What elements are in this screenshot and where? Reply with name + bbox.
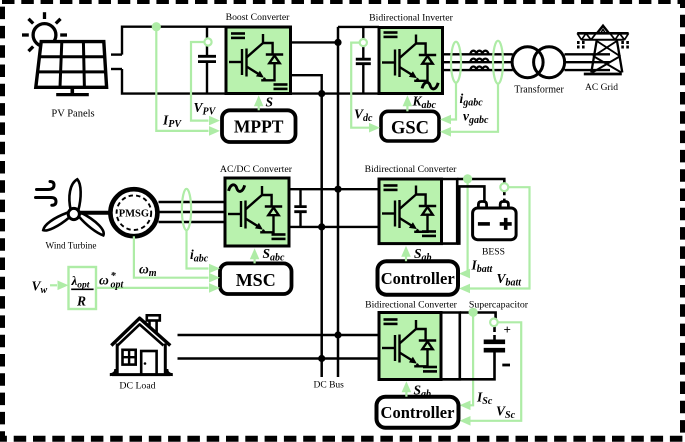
green arrow S_ab (battery): [405, 250, 407, 261]
SC converter DC mark bottom-right: [423, 367, 437, 371]
green sensor circle V_Sc: [490, 319, 498, 327]
AC/DC IGBT U3: [228, 186, 282, 232]
node dot I_PV tap: [152, 22, 161, 31]
green arrow S_ab (SC): [405, 386, 407, 397]
capacitor C2 (dc link): [356, 27, 371, 94]
svg-text:MPPT: MPPT: [234, 117, 284, 137]
capacitor C3: [294, 189, 306, 227]
green line V_batt: [467, 187, 530, 288]
wire: AC/DC top output: [289, 188, 379, 190]
wire: dc link bottom y93.6: [291, 92, 380, 94]
turbine shaft: [79, 211, 111, 215]
wind turbine rotor: [43, 179, 103, 235]
green line i_abc: [187, 230, 209, 268]
AC/DC AC mark top-left: [229, 185, 245, 192]
battery converter side rect: [442, 179, 458, 244]
green arrow S_abc: [254, 253, 256, 264]
bidirectional inverter box: [379, 28, 443, 94]
sensor ellipse i_gabc: [451, 42, 461, 83]
svg-text:Controller: Controller: [381, 403, 455, 422]
house DC load icon: [110, 315, 173, 374]
green line I_Sc: [467, 312, 474, 405]
wire: PV stub bottom: [111, 68, 122, 70]
svg-text:MSC: MSC: [236, 270, 276, 290]
battery converter DC mark bottom-right: [422, 232, 436, 236]
svg-text:DC Load: DC Load: [119, 381, 155, 392]
sensor circle V_dc: [360, 39, 367, 46]
green line v_gabc: [449, 84, 498, 132]
svg-text:Supercapacitor: Supercapacitor: [469, 300, 529, 311]
svg-text:Bidirectional Inverter: Bidirectional Inverter: [369, 13, 453, 24]
wind swoosh: [36, 182, 57, 206]
svg-text:S: S: [266, 95, 274, 110]
inverter AC mark bottom-right: [422, 82, 438, 89]
SC converter IGBT U5: [382, 320, 436, 366]
SC minus label: [502, 364, 510, 367]
wire: SC top lead: [460, 313, 496, 319]
green node dot I_Sc tap: [469, 308, 478, 317]
green line I_batt: [466, 179, 468, 274]
lambda_opt/R block: [69, 267, 97, 309]
AC grid tower icon: [577, 26, 628, 74]
DC bus left vertical: [320, 94, 323, 377]
green line I_PV: [156, 27, 208, 131]
svg-text:Bidirectional Converter: Bidirectional Converter: [365, 300, 458, 311]
svg-text:Controller: Controller: [381, 269, 455, 288]
svg-text:AC/DC Converter: AC/DC Converter: [220, 164, 293, 175]
green arrow V_w: [50, 284, 57, 286]
green node dot I_batt tap: [463, 174, 472, 183]
green line omega_m from PMSG: [134, 236, 209, 278]
sensor circle V_PV: [204, 38, 211, 45]
SC converter DC mark top-left: [384, 320, 398, 324]
green line V_PV: [191, 42, 209, 121]
3-phase lines PMSG to AC/DC: [157, 202, 225, 222]
PMSG machine: [110, 189, 157, 236]
inductor La: [470, 51, 488, 55]
svg-text:PMSG: PMSG: [119, 209, 149, 220]
svg-text:GSC: GSC: [391, 119, 429, 139]
boost DC mark bottom-right: [274, 85, 288, 89]
battery converter box: [379, 179, 442, 244]
AC/DC converter box: [225, 178, 289, 246]
battery converter DC mark top-left: [384, 186, 398, 190]
svg-text:Bidirectional Converter: Bidirectional Converter: [365, 164, 458, 175]
AC/DC DC mark bottom-right: [272, 235, 286, 239]
green sensor circle V_batt: [500, 183, 508, 191]
MPPT block: [222, 110, 296, 142]
wire: battery negative lead: [457, 186, 484, 243]
green line V_dc: [351, 43, 369, 128]
junction dots on bus: [334, 39, 341, 46]
svg-text:PV Panels: PV Panels: [51, 109, 94, 120]
sensor ellipse v_gabc: [493, 41, 503, 84]
PV panel icon: [36, 42, 107, 95]
sensor ellipse i_abc: [182, 189, 191, 230]
inductor Lc: [470, 67, 488, 71]
inverter IGBT U2: [382, 35, 436, 81]
capacitor C1: [198, 27, 216, 94]
transformer T1: [512, 47, 543, 78]
wire: load top: [178, 334, 380, 336]
SC converter side rect: [441, 313, 460, 380]
inverter DC mark top-left: [384, 33, 398, 37]
svg-text:Boost Converter: Boost Converter: [226, 12, 291, 23]
inductor Lb: [470, 59, 488, 63]
svg-text:+: +: [504, 322, 511, 337]
wire: PV stub top: [111, 53, 122, 55]
green line omega_opt* to MSC: [96, 287, 209, 289]
3-phase lines inverter to transformer: [443, 54, 513, 70]
wire: boost bottom output to bus: [291, 75, 322, 93]
3-phase lines transformer to grid: [565, 54, 611, 70]
wire: boost top output to bus: [291, 41, 339, 43]
GSC block: [381, 111, 439, 141]
wire: battery positive lead: [457, 179, 504, 183]
svg-text:R: R: [76, 294, 86, 309]
MSC block: [220, 263, 292, 294]
battery BESS icon: [473, 202, 516, 240]
svg-text:BESS: BESS: [482, 247, 505, 258]
supercapacitor plates: [484, 342, 505, 350]
wire: AC/DC bottom output: [289, 226, 379, 228]
battery converter IGBT U4: [382, 186, 436, 232]
SC converter box: [379, 313, 441, 380]
Controller block (battery): [378, 261, 459, 295]
wire: SC bottom lead: [441, 353, 495, 380]
boost input rect wires: [122, 27, 226, 94]
inverter input rect top wire: [338, 26, 379, 28]
svg-text:AC Grid: AC Grid: [585, 83, 618, 93]
boost IGBT U1: [229, 34, 283, 80]
svg-text:DC Bus: DC Bus: [314, 381, 345, 391]
sun icon: [22, 12, 67, 58]
green arrow K_abc: [406, 100, 408, 112]
DC bus right vertical: [337, 27, 340, 377]
green arrow S into boost: [258, 100, 260, 111]
boost converter box: [226, 27, 291, 94]
turbine hub: [68, 208, 79, 219]
green line i_gabc: [449, 83, 456, 120]
boost DC mark top-left: [231, 34, 245, 38]
wire: load bottom: [178, 357, 380, 359]
green line V_Sc: [467, 322, 521, 421]
svg-text:Wind Turbine: Wind Turbine: [46, 241, 97, 251]
Controller block (SC): [377, 397, 459, 428]
svg-text:Transformer: Transformer: [514, 85, 564, 96]
